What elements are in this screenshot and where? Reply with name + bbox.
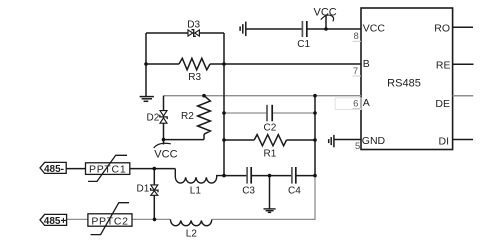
svg-text:DI: DI bbox=[439, 136, 450, 148]
svg-text:8: 8 bbox=[354, 31, 359, 42]
svg-text:A: A bbox=[363, 97, 370, 109]
svg-text:D2: D2 bbox=[147, 112, 160, 123]
svg-text:R3: R3 bbox=[188, 72, 201, 83]
svg-text:RE: RE bbox=[436, 59, 451, 71]
svg-text:C4: C4 bbox=[288, 185, 301, 196]
svg-text:RS485: RS485 bbox=[387, 78, 421, 90]
svg-text:L2: L2 bbox=[186, 229, 198, 240]
svg-text:C2: C2 bbox=[264, 122, 277, 133]
svg-text:GND: GND bbox=[362, 135, 386, 147]
svg-text:485+: 485+ bbox=[44, 216, 67, 227]
svg-text:7: 7 bbox=[353, 66, 358, 77]
svg-text:DE: DE bbox=[435, 98, 450, 110]
svg-text:R2: R2 bbox=[181, 111, 194, 122]
svg-text:R1: R1 bbox=[264, 149, 277, 160]
svg-text:L1: L1 bbox=[190, 186, 202, 197]
svg-text:C3: C3 bbox=[242, 186, 255, 197]
svg-text:D1: D1 bbox=[137, 184, 150, 195]
svg-text:B: B bbox=[363, 58, 370, 70]
svg-text:VCC: VCC bbox=[314, 6, 337, 18]
svg-text:5: 5 bbox=[355, 141, 360, 152]
svg-text:RO: RO bbox=[434, 22, 450, 34]
svg-text:C1: C1 bbox=[297, 39, 310, 50]
svg-text:6: 6 bbox=[353, 98, 358, 109]
svg-text:VCC: VCC bbox=[363, 22, 386, 34]
svg-text:PPTC1: PPTC1 bbox=[89, 163, 126, 175]
svg-text:485-: 485- bbox=[44, 164, 64, 175]
svg-text:VCC: VCC bbox=[154, 148, 177, 160]
svg-text:D3: D3 bbox=[187, 19, 200, 30]
